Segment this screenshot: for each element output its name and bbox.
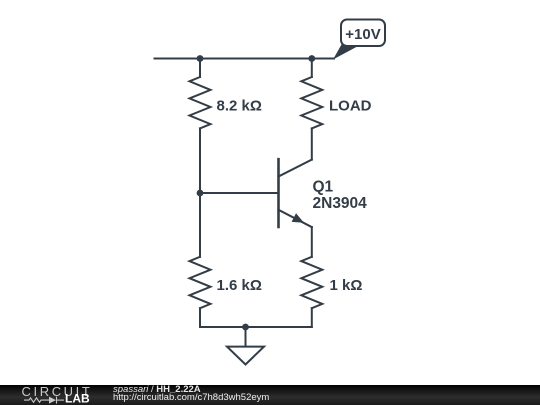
wire emitter lower xyxy=(311,227,313,257)
resistor 1 kOhm xyxy=(301,257,322,308)
svg-text:+10V: +10V xyxy=(345,26,380,43)
power label +10V xyxy=(333,20,385,60)
CircuitLab logo xyxy=(0,385,110,405)
wire base xyxy=(200,192,279,194)
svg-text:1.6 kΩ: 1.6 kΩ xyxy=(217,277,262,294)
node junction top-right xyxy=(308,55,315,62)
svg-text:2N3904: 2N3904 xyxy=(313,195,368,212)
svg-text:1 kΩ: 1 kΩ xyxy=(330,277,363,294)
transistor Q1 2N3904 xyxy=(279,159,368,227)
wire left stub xyxy=(199,59,201,78)
wire right stub xyxy=(311,59,313,78)
wire left middle xyxy=(199,128,201,193)
resistor LOAD xyxy=(301,77,322,128)
resistor 8.2 kOhm xyxy=(190,77,211,128)
wire top rail xyxy=(155,58,335,60)
wire left lower xyxy=(199,193,201,257)
footer bar xyxy=(0,385,540,405)
svg-text:8.2 kΩ: 8.2 kΩ xyxy=(217,98,262,115)
svg-text:Q1: Q1 xyxy=(313,178,334,195)
wire left bottom stub xyxy=(199,308,201,327)
svg-text:LOAD: LOAD xyxy=(329,98,372,115)
node ground junction xyxy=(242,324,249,331)
footer text xyxy=(113,385,201,395)
wire bottom rail xyxy=(200,326,312,328)
resistor 1.6 kOhm xyxy=(190,257,211,308)
svg-text:LAB: LAB xyxy=(65,391,90,405)
node base junction xyxy=(197,190,204,197)
wire collector xyxy=(311,128,313,159)
wire right bottom stub xyxy=(311,308,313,327)
ground xyxy=(227,327,264,365)
node junction top-left xyxy=(197,55,204,62)
